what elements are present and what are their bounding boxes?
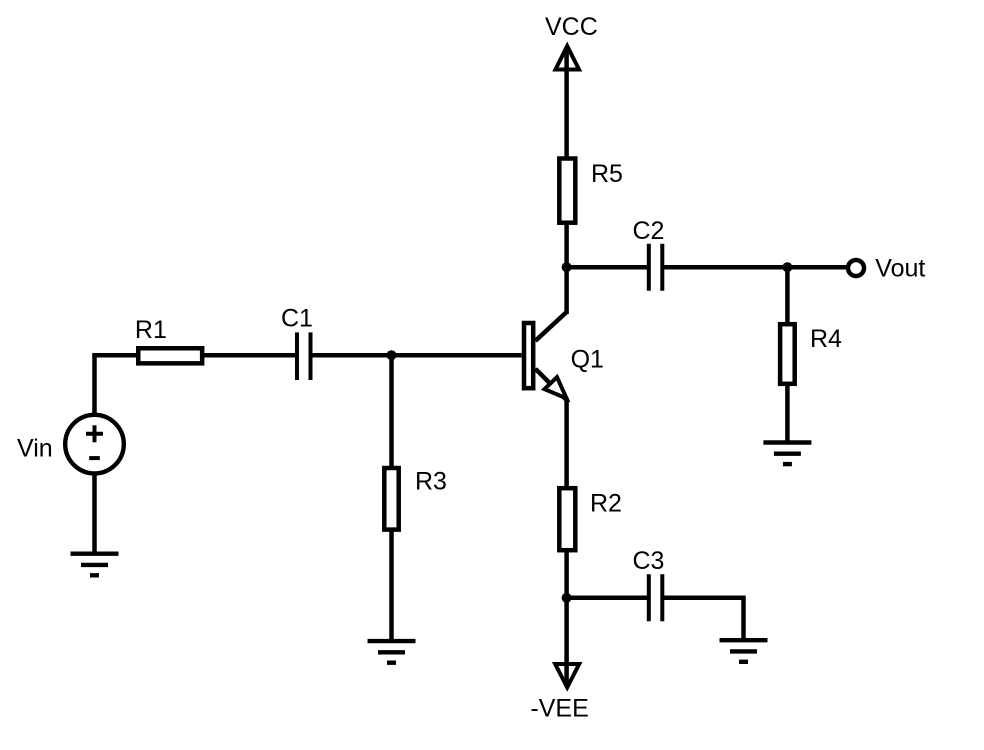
wire C3 to ground corner [663, 598, 743, 640]
wire Vin top vertical [92, 355, 97, 413]
wire R2 to emitter node [564, 549, 569, 598]
wire emitter node to -VEE arrow [564, 598, 569, 687]
wire R3 to ground [389, 530, 394, 641]
emitter vertical [564, 398, 569, 488]
svg-text:Vout: Vout [875, 255, 925, 283]
svg-text:C1: C1 [281, 305, 313, 333]
transistor Q1 [524, 267, 567, 488]
svg-text:R2: R2 [590, 490, 622, 518]
svg-text:C3: C3 [633, 547, 665, 575]
svg-text:-VEE: -VEE [530, 695, 588, 723]
emitter arrow [545, 377, 567, 398]
svg-text:R1: R1 [135, 316, 167, 344]
node collector junction [562, 262, 572, 272]
emitter diagonal [535, 369, 566, 400]
svg-text:Vin: Vin [17, 435, 53, 463]
ground (below Vin) [71, 554, 119, 576]
wire output node down to R4 [785, 267, 790, 324]
resistor R5 [559, 159, 575, 223]
node emitter junction [562, 593, 572, 603]
wire R1 to C1 [202, 353, 296, 358]
ground (below R3) [368, 641, 416, 663]
wire Vin bottom to ground [92, 475, 97, 554]
resistor R2 [559, 488, 575, 550]
resistor R1 [138, 348, 202, 363]
ground (below R4) [763, 443, 811, 465]
svg-text:R4: R4 [810, 325, 842, 353]
wire C2 to output node [663, 265, 787, 270]
wire R5 to VCC arrow [564, 48, 569, 159]
wire collector node to R5 [564, 224, 569, 267]
power VCC arrow [556, 46, 580, 70]
wire node B down to R3 [389, 355, 394, 468]
resistor R3 [384, 468, 398, 530]
capacitor C1 [297, 332, 311, 380]
svg-text:R3: R3 [415, 468, 447, 496]
terminal Vout [848, 260, 864, 276]
wire R4 to ground [785, 384, 790, 442]
wire output node to Vout terminal [787, 265, 847, 270]
collector vertical [564, 267, 569, 314]
voltage source Vin [65, 415, 124, 474]
capacitor C3 [649, 574, 663, 621]
node output junction [782, 262, 792, 272]
svg-text:C2: C2 [633, 217, 665, 245]
ground (right of C3) [720, 640, 768, 662]
node B (base junction) [387, 350, 397, 360]
wire Vin to R1 [92, 353, 140, 358]
wire emitter node to C3 [567, 596, 648, 601]
power -VEE arrow [555, 664, 579, 687]
capacitor C2 [649, 244, 663, 291]
wire collector node to C2 [567, 265, 648, 270]
resistor R4 [780, 324, 795, 384]
svg-text:R5: R5 [591, 160, 623, 188]
svg-text:Q1: Q1 [571, 346, 604, 374]
wire C1 to Q1 base (through node B) [312, 353, 522, 358]
collector diagonal [535, 312, 566, 341]
svg-text:VCC: VCC [545, 13, 598, 41]
base bar [524, 323, 533, 388]
